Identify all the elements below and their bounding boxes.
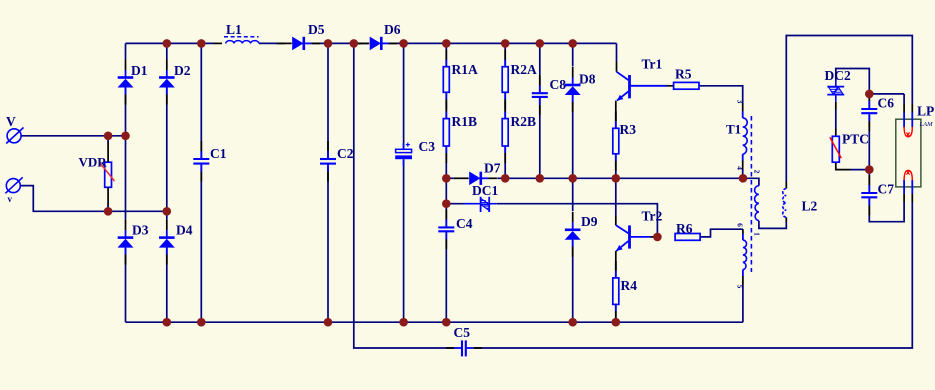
wire - Tr1 collector feed: [616, 43, 618, 71]
svg-text:3: 3: [736, 100, 745, 104]
svg-text:PTC: PTC: [842, 132, 869, 147]
svg-text:R3: R3: [620, 122, 637, 137]
wire - C3 branch: [403, 43, 405, 322]
diode D4: [159, 220, 175, 265]
junction at 446.3,178.3: [442, 174, 451, 183]
T1 pin 5 number: [736, 285, 745, 289]
label DC2: [825, 68, 851, 83]
svg-text:Tr1: Tr1: [642, 57, 663, 72]
svg-text:D8: D8: [579, 72, 596, 87]
svg-text:L1: L1: [226, 22, 242, 37]
wire - D8/D9 branch: [572, 43, 574, 322]
label C2: [337, 146, 354, 161]
junction at 201.3,322.2: [197, 318, 206, 327]
junction at 328,43.4: [324, 39, 333, 48]
resistor R4: [613, 261, 619, 322]
junction at 615.8,178.3: [612, 174, 621, 183]
label R5: [675, 67, 692, 82]
label DC1: [472, 183, 498, 198]
resistor R1A: [443, 50, 449, 110]
wire - R4 to bottom rail: [615, 304, 617, 322]
junction at 403.6,43.4: [399, 39, 408, 48]
wire - Tr2 emitter to R4: [615, 251, 617, 278]
wire - D2/D4 branch column: [166, 43, 168, 322]
junction at 869.3,169.6: [865, 165, 874, 174]
T1 feedback winding (pins 2-1): [755, 186, 759, 221]
svg-text:D7: D7: [484, 161, 501, 176]
svg-text:T1: T1: [726, 122, 741, 137]
lamp bottom filament: [904, 170, 912, 202]
inductor L1: [224, 37, 259, 44]
wire - AC input bottom: [20, 186, 167, 212]
junction at 505.2,178.3: [501, 174, 510, 183]
resistor R5: [674, 82, 699, 89]
label D1: [131, 63, 148, 78]
label R3: [620, 122, 637, 137]
wire - T1 pin 4 to half-bridge node: [742, 154, 744, 178]
capacitor C6: [861, 91, 877, 131]
label Tr2: [642, 209, 663, 224]
svg-text:C5: C5: [454, 325, 471, 340]
svg-text:D2: D2: [174, 63, 191, 78]
transformer T1 primary winding (pins 3-4): [743, 118, 748, 154]
label L1: [226, 22, 242, 37]
wire - R2A/R2B branch: [504, 43, 506, 178]
junction at 572.7,178.3: [568, 174, 577, 183]
label PTC: [842, 132, 869, 147]
svg-text:LP: LP: [917, 104, 934, 119]
svg-text:C1: C1: [210, 146, 227, 161]
svg-text:DC2: DC2: [825, 68, 851, 83]
diode D5: [277, 37, 320, 51]
svg-text:DC1: DC1: [472, 183, 498, 198]
label D4: [176, 223, 193, 238]
wire - C2 branch: [327, 43, 329, 322]
junction at 869.3,93.9: [865, 90, 874, 99]
label R2A: [511, 62, 537, 77]
capacitor C8: [532, 75, 548, 115]
svg-text:2: 2: [753, 170, 762, 174]
thermistor PTC: [830, 136, 842, 162]
svg-text:C2: C2: [337, 146, 354, 161]
T1 pin 1 number: [753, 232, 762, 236]
wire - Tr1 emitter to R3: [615, 101, 617, 129]
svg-text:D6: D6: [384, 22, 401, 37]
svg-text:L2: L2: [802, 199, 818, 214]
label C3: [419, 139, 436, 154]
svg-text:D4: D4: [176, 223, 193, 238]
wire - mid rail (half-bridge node): [446, 177, 743, 179]
varistor VDR: [100, 136, 114, 212]
svg-text:C6: C6: [878, 96, 895, 111]
voltage source V top terminal: [6, 128, 23, 144]
label D7: [484, 161, 501, 176]
wire - DC2 top link to C6 node: [836, 69, 870, 94]
svg-text:R2A: R2A: [511, 62, 537, 77]
label T1: [726, 122, 741, 137]
label C4: [456, 216, 473, 231]
svg-text:D5: D5: [308, 22, 325, 37]
label C6: [878, 96, 895, 111]
transformer T1 base winding (pins 6-5): [743, 240, 747, 270]
wire - top rail black pin stubs: [214, 42, 397, 44]
svg-text:1: 1: [753, 232, 762, 236]
wire - T1 feedback winding top lead: [743, 178, 759, 185]
junction at 446.3,43.4: [442, 39, 451, 48]
wire - R3 to mid rail: [615, 154, 617, 179]
junction at 125.5,135.8: [121, 132, 130, 141]
inductor L2: [783, 189, 787, 218]
label R1B: [452, 114, 478, 129]
resistor R3: [613, 111, 619, 171]
junction at 539.8,178.3: [536, 174, 545, 183]
diac DC2: [827, 81, 844, 102]
svg-text:C4: C4: [456, 216, 473, 231]
resistor R2A: [502, 50, 508, 110]
junction at 505.2,43.4: [501, 39, 510, 48]
label Tr1: [642, 57, 663, 72]
label LAM: [919, 121, 934, 128]
junction at 166.8,43.4: [163, 39, 172, 48]
resistor R1B: [443, 102, 449, 163]
svg-text:Tr2: Tr2: [642, 209, 663, 224]
capacitor C7: [861, 175, 877, 215]
label D6: [384, 22, 401, 37]
wire - mid rail to Tr2 collector: [615, 178, 617, 225]
label C1: [210, 146, 227, 161]
svg-text:4: 4: [736, 166, 745, 170]
T1 pin 4 number: [736, 166, 745, 170]
label D9: [581, 214, 598, 229]
label C7: [878, 182, 895, 197]
svg-text:6: 6: [736, 223, 745, 227]
wire - R1A/R1B/C4 branch: [445, 43, 447, 322]
svg-text:R1B: R1B: [452, 114, 478, 129]
T1 pin 3 number: [736, 100, 745, 104]
junction at 539.8,43.4: [536, 39, 545, 48]
svg-text:V: V: [6, 114, 16, 129]
diode D2: [159, 60, 175, 105]
wire - C6 column: [868, 94, 870, 170]
junction at 328,322.2: [324, 318, 333, 327]
wire - C6 node to lamp top-left pin: [869, 94, 904, 104]
diode D7: [454, 172, 497, 186]
svg-text:C7: C7: [878, 182, 895, 197]
svg-text:VDR: VDR: [79, 155, 108, 170]
diode D3: [118, 220, 134, 265]
diode D6: [354, 37, 397, 51]
diode D1: [118, 60, 134, 105]
junction at 572.7,322.2: [568, 318, 577, 327]
diode D8: [565, 67, 581, 112]
junction at 166.8,211.3: [163, 207, 172, 216]
junction at 615.8,322.2: [612, 318, 621, 327]
svg-text:C3: C3: [419, 139, 436, 154]
svg-text:5: 5: [736, 285, 745, 289]
transistor Tr2: [616, 225, 658, 251]
T1 pin 2 number: [753, 170, 762, 174]
junction at 353.8,43.4: [350, 39, 359, 48]
label V: [6, 114, 16, 129]
resistor R2B: [502, 102, 508, 163]
junction at 572.7,43.4: [568, 39, 577, 48]
resistor R6: [675, 234, 700, 241]
svg-text:R6: R6: [676, 221, 693, 236]
junction at 657.4,236.9: [653, 233, 662, 242]
svg-text:LAM: LAM: [919, 121, 934, 128]
wire - DC1 trigger rail: [446, 204, 657, 237]
svg-text:R5: R5: [675, 67, 692, 82]
T1 core: [750, 116, 752, 272]
svg-text:D3: D3: [132, 223, 149, 238]
label C8: [550, 77, 567, 92]
label R4: [621, 278, 638, 293]
capacitor C5: [446, 340, 482, 356]
svg-text:v: v: [8, 194, 13, 204]
wire - top DC rail: [126, 42, 617, 44]
svg-text:D9: D9: [581, 214, 598, 229]
T1 pin 6 number: [736, 223, 745, 227]
svg-text:C8: C8: [550, 77, 567, 92]
wire - bottom DC rail: [126, 321, 743, 323]
transistor Tr1: [617, 72, 674, 101]
label D3: [132, 223, 149, 238]
junction at 201.3,43.4: [197, 39, 206, 48]
wire - T1 feedback winding bottom to L2: [759, 217, 786, 228]
wire - C1 branch: [200, 43, 202, 322]
wire - DC2 to PTC link: [835, 102, 837, 137]
svg-text:D1: D1: [131, 63, 148, 78]
capacitor C4: [438, 209, 454, 249]
junction at 108.1,211.3: [104, 207, 113, 216]
junction at 166.8,322.2: [163, 318, 172, 327]
wire - D1/D3 branch column: [125, 43, 127, 322]
junction at 403.6,322.2: [399, 318, 408, 327]
junction at 446.3,203.7: [442, 199, 451, 208]
diode D9: [565, 212, 581, 257]
label L2: [802, 199, 818, 214]
lamp top filament: [904, 104, 912, 137]
capacitor C1: [193, 141, 209, 182]
svg-text:R4: R4: [621, 278, 638, 293]
svg-text:R1A: R1A: [452, 62, 478, 77]
label D5: [308, 22, 325, 37]
svg-text:R2B: R2B: [511, 114, 537, 129]
wire - R5 to T1 pin 3: [699, 86, 743, 118]
label v (bottom terminal): [8, 194, 13, 204]
label R2B: [511, 114, 537, 129]
diac DC1: [465, 197, 497, 212]
label LP: [917, 104, 934, 119]
wire - C8 branch: [539, 43, 541, 178]
lamp LP tube outline: [896, 119, 921, 187]
wire - T1 pin 5 to bottom rail: [742, 270, 744, 323]
label R1A: [452, 62, 478, 77]
wire - R6 to T1 pin 6: [700, 229, 743, 240]
label D8: [579, 72, 596, 87]
voltage source bottom terminal: [5, 177, 22, 193]
wire - C7 column and loop to lamp bottom-left pin: [869, 170, 904, 222]
label R6: [676, 221, 693, 236]
capacitor C2: [320, 141, 336, 182]
label VDR: [79, 155, 108, 170]
junction at 108.1,135.8: [104, 132, 113, 141]
wire - PTC bottom to C6/C7 node: [836, 162, 870, 169]
wire - L2 to lamp top rail: [786, 36, 912, 189]
label D2: [174, 63, 191, 78]
wire - AC input top (V to bridge): [21, 135, 125, 137]
junction at 743,178.3: [739, 174, 748, 183]
label C5: [454, 325, 471, 340]
wire - C5 return branch: [354, 43, 913, 348]
junction at 446.3,322.2: [442, 318, 451, 327]
electrolytic capacitor C3: [395, 143, 412, 166]
